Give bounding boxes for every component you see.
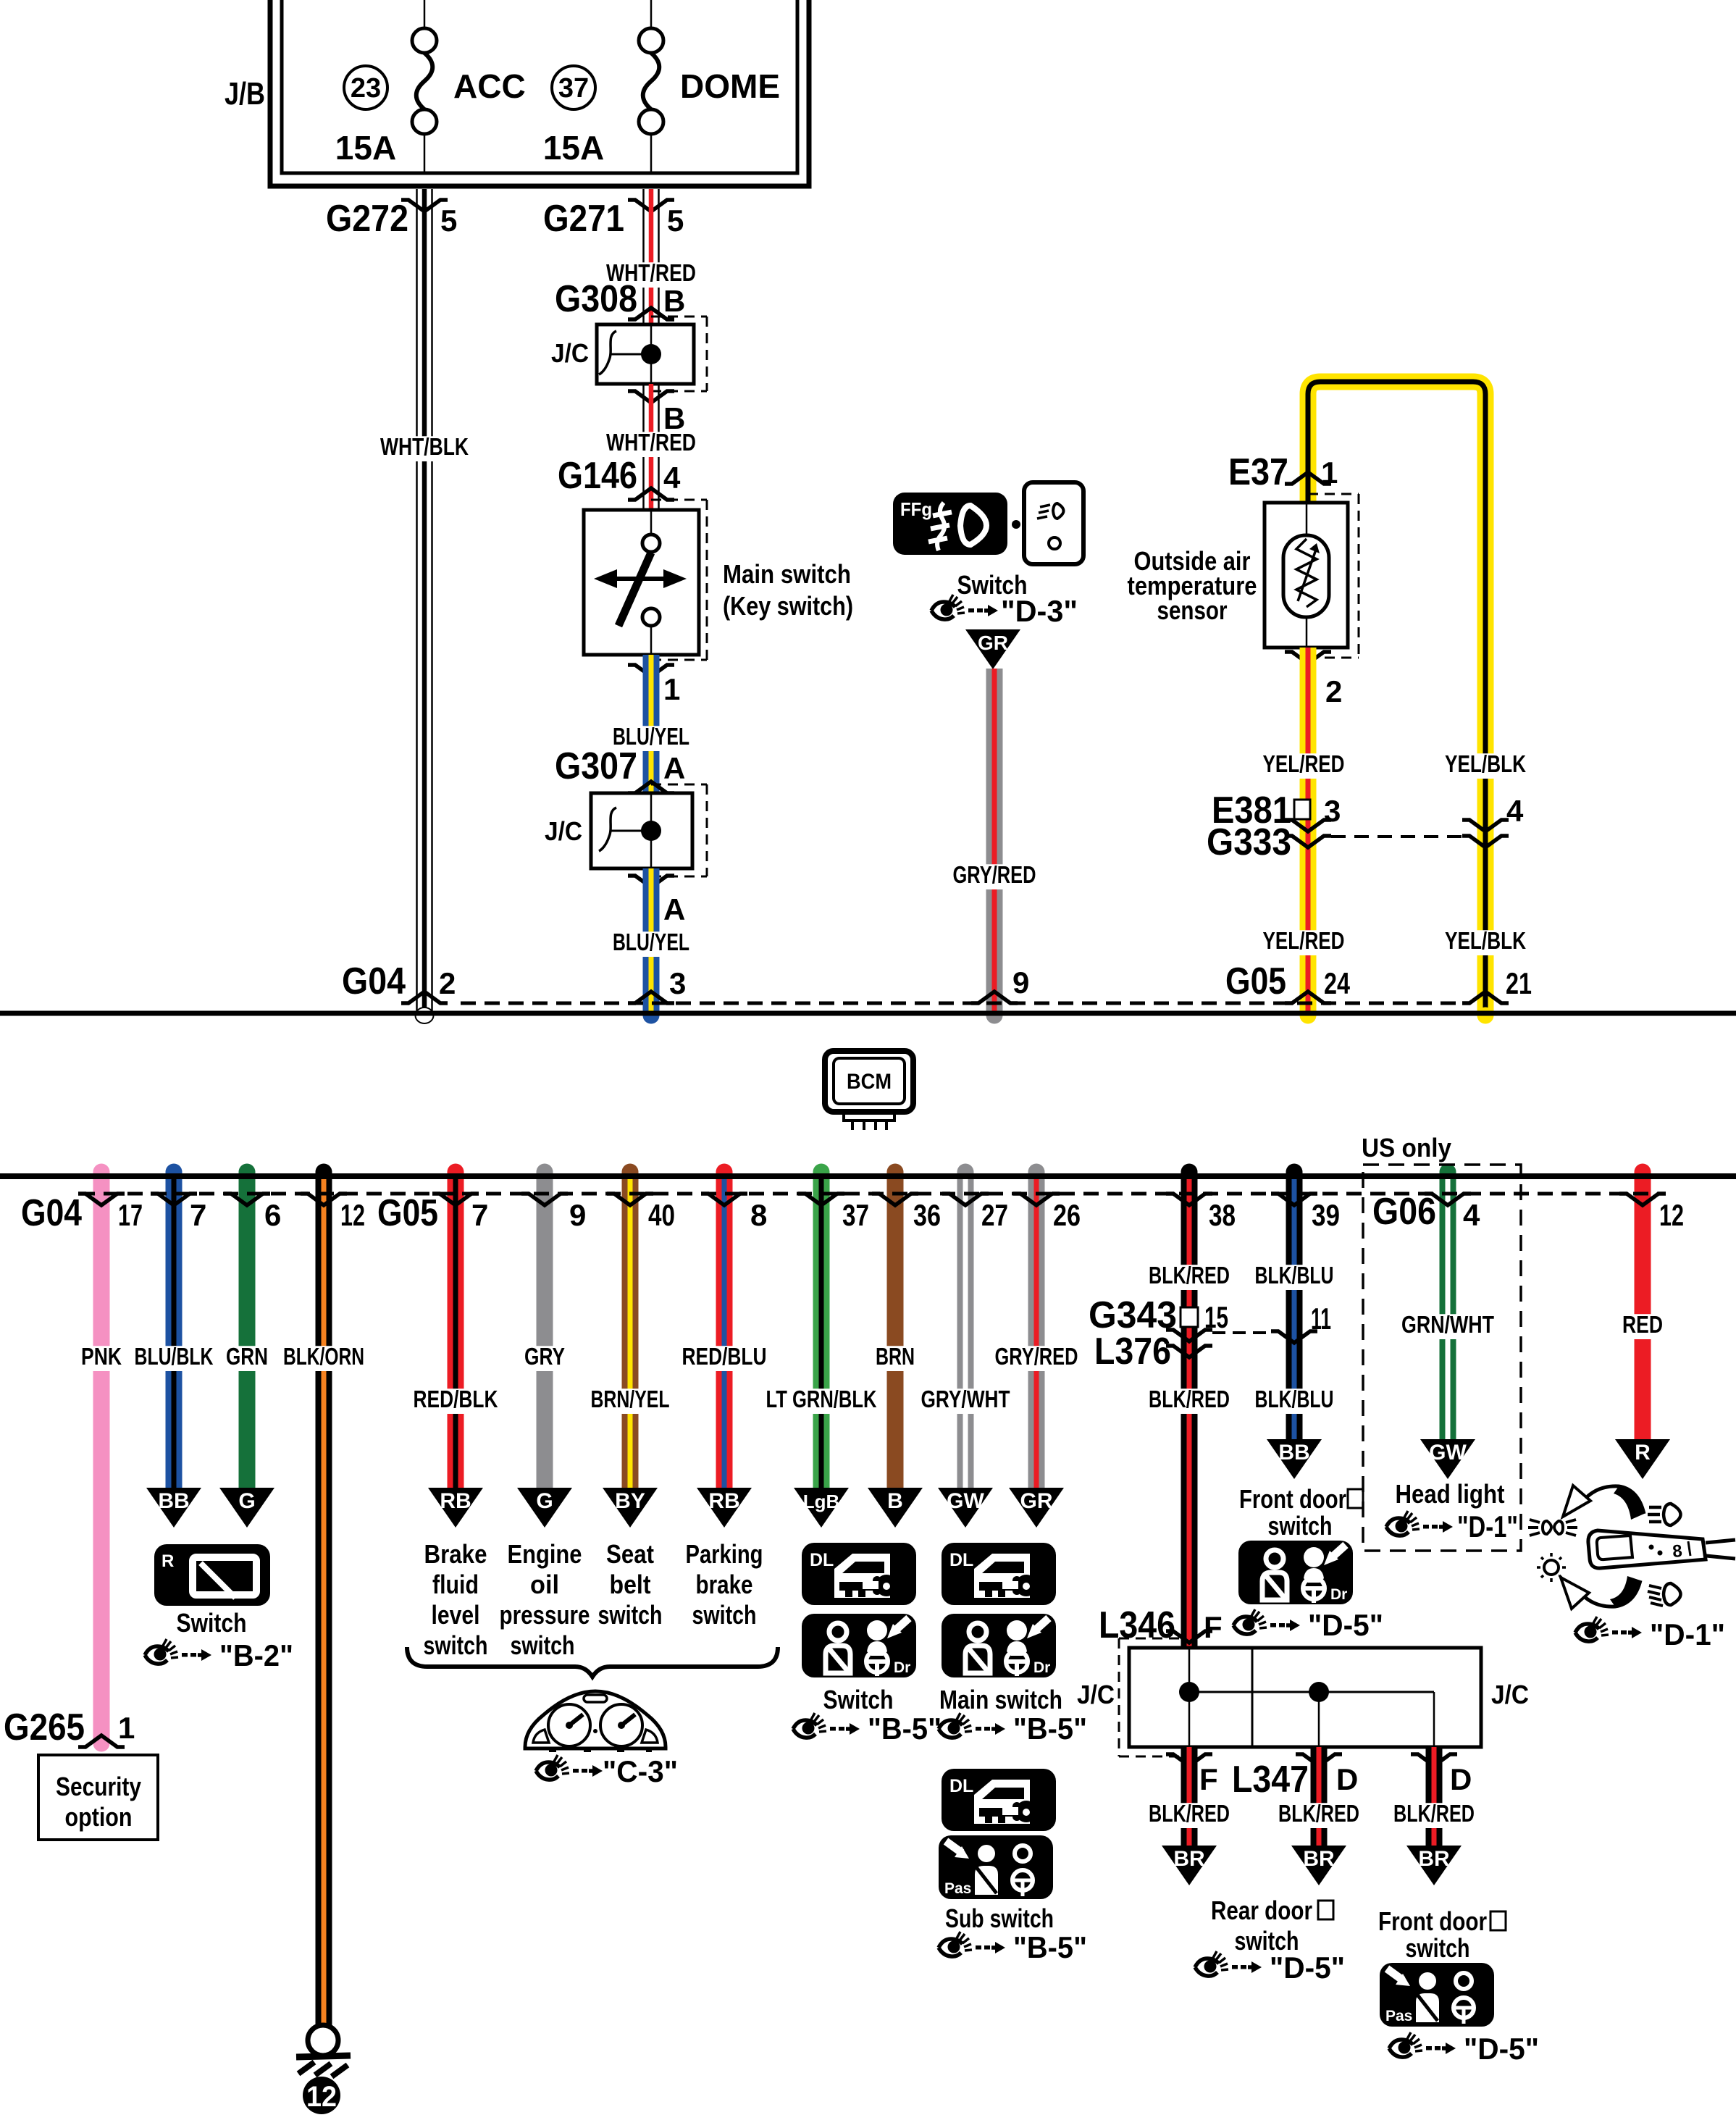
svg-text:GRY/RED: GRY/RED: [995, 1343, 1078, 1370]
svg-text:5: 5: [667, 204, 684, 238]
connector L346 pin F: [1099, 1604, 1223, 1646]
connector pin 2: [1285, 652, 1342, 708]
ground symbol 12: [296, 2025, 351, 2114]
eye C-3: [536, 1754, 678, 1788]
svg-text:37: 37: [558, 73, 589, 104]
svg-text:G272: G272: [326, 198, 408, 240]
svg-text:GW: GW: [947, 1489, 984, 1513]
wire GRN: [222, 1164, 272, 1488]
svg-text:21: 21: [1506, 966, 1532, 1000]
eye D-5 (front door Pas): [1389, 2032, 1539, 2066]
svg-text:2: 2: [439, 966, 456, 1000]
connector E381 pin 3 / G333: [1207, 789, 1524, 863]
main switch label + eye B-5 (2): [939, 1685, 1087, 1746]
bus2 pin chevrons and numbers: [78, 1194, 1684, 1232]
svg-text:DL: DL: [810, 1550, 834, 1570]
svg-text:Parking: Parking: [686, 1539, 763, 1569]
svg-text:G05: G05: [377, 1192, 438, 1234]
svg-text:BLU/BLK: BLU/BLK: [135, 1343, 214, 1370]
wire YEL/BLK loop: [1308, 382, 1494, 1024]
svg-text:9: 9: [1012, 965, 1029, 1000]
svg-text:F: F: [1199, 1762, 1218, 1796]
svg-text:15A: 15A: [543, 129, 604, 167]
svg-text:4: 4: [1506, 794, 1524, 828]
svg-text:12: 12: [306, 2081, 337, 2113]
wire BRN/YEL: [587, 1164, 674, 1488]
connector pin A lower: [628, 876, 685, 926]
svg-text:G: G: [238, 1489, 255, 1513]
svg-text:Dr: Dr: [1033, 1659, 1050, 1676]
svg-text:DOME: DOME: [680, 67, 780, 105]
svg-text:J/C: J/C: [545, 816, 582, 846]
connector G343 pin 15 / L376: [1089, 1294, 1331, 1373]
svg-text:RB: RB: [440, 1489, 471, 1513]
seat belt switch label: [598, 1539, 663, 1630]
svg-text:26: 26: [1053, 1198, 1081, 1232]
J/C box L346/L347: [1077, 1638, 1529, 1756]
svg-text:BLK/RED: BLK/RED: [1149, 1262, 1230, 1289]
svg-text:YEL/RED: YEL/RED: [1263, 927, 1345, 954]
main switch icon Dr: [942, 1614, 1056, 1677]
svg-text:27: 27: [981, 1198, 1008, 1232]
svg-text:Security: Security: [56, 1772, 141, 1801]
wire WHT/RED lower: [602, 384, 700, 510]
svg-text:switch: switch: [424, 1630, 488, 1660]
svg-text:GRY: GRY: [524, 1343, 565, 1370]
svg-text:GRN: GRN: [226, 1343, 268, 1370]
security option box: [38, 1755, 158, 1840]
svg-text:3: 3: [669, 966, 686, 1000]
svg-text:"C-3": "C-3": [603, 1754, 678, 1788]
triangle BR 2: [1291, 1846, 1346, 1885]
svg-text:BLK/BLU: BLK/BLU: [1255, 1262, 1334, 1289]
svg-text:L347: L347: [1232, 1759, 1309, 1801]
triangle GR: [965, 629, 1020, 669]
eye D-1 (head light): [1386, 1509, 1518, 1543]
wire BLU/YEL lower: [608, 868, 694, 1024]
svg-text:E37: E37: [1228, 451, 1288, 493]
front door switch icon Pas: [1380, 1963, 1494, 2027]
connector G265 pin 1: [4, 1706, 135, 1748]
svg-text:Front door: Front door: [1239, 1484, 1346, 1514]
svg-text:24: 24: [1324, 966, 1350, 1000]
svg-text:GR: GR: [978, 632, 1008, 654]
connector G272 pin 5: [326, 198, 457, 240]
svg-text:BB: BB: [1278, 1441, 1309, 1465]
svg-text:fluid: fluid: [432, 1570, 479, 1599]
svg-text:BR: BR: [1303, 1847, 1335, 1871]
wire GRN/WHT: [1397, 1164, 1498, 1440]
svg-text:8: 8: [750, 1198, 767, 1232]
wire GRY/WHT: [917, 1164, 1015, 1488]
svg-text:switch: switch: [692, 1600, 757, 1630]
svg-text:brake: brake: [696, 1570, 753, 1599]
triangle RB brake: [428, 1488, 483, 1528]
junction block J/B: [225, 0, 809, 186]
svg-text:G333: G333: [1207, 821, 1291, 863]
svg-text:Switch: Switch: [177, 1608, 247, 1638]
svg-text:Pas: Pas: [944, 1880, 971, 1897]
wire GRY/RED lower: [991, 1164, 1083, 1488]
triangle BB front door: [1267, 1439, 1322, 1479]
svg-text:Dr: Dr: [1330, 1586, 1347, 1603]
svg-text:BR: BR: [1418, 1847, 1450, 1871]
svg-text:LgB: LgB: [803, 1491, 840, 1512]
triangle BY: [603, 1488, 658, 1528]
connector G05 pins 24,21: [1225, 960, 1532, 1003]
svg-text:"D-5": "D-5": [1270, 1951, 1345, 1985]
svg-text:US only: US only: [1362, 1133, 1451, 1163]
sub switch label + eye B-5 (3): [939, 1903, 1087, 1964]
svg-text:D: D: [1336, 1762, 1358, 1796]
svg-text:GRN/WHT: GRN/WHT: [1401, 1311, 1494, 1338]
svg-text:Rear door: Rear door: [1211, 1895, 1312, 1925]
svg-text:12: 12: [340, 1198, 365, 1232]
J/C box G308: [551, 317, 707, 391]
front door switch label (Pas): [1378, 1906, 1506, 1963]
svg-text:12: 12: [1659, 1198, 1684, 1232]
svg-text:39: 39: [1312, 1198, 1340, 1232]
svg-text:DL: DL: [949, 1776, 973, 1796]
wire BLK/RED D1: [1274, 1747, 1364, 1846]
wire WHT/RED upper: [602, 189, 700, 324]
bus line G04/G05: [0, 1003, 1736, 1013]
svg-text:"B-5": "B-5": [1013, 1712, 1087, 1746]
outside air temperature sensor: [1128, 494, 1359, 658]
svg-text:Dr: Dr: [894, 1659, 910, 1676]
svg-text:2: 2: [1325, 674, 1342, 708]
svg-text:G271: G271: [543, 198, 624, 240]
svg-text:Pas: Pas: [1385, 2008, 1412, 2024]
main switch (key switch): [584, 500, 853, 660]
svg-text:GW: GW: [1429, 1441, 1467, 1465]
svg-text:option: option: [65, 1802, 133, 1832]
svg-text:G05: G05: [1225, 960, 1286, 1002]
svg-text:B: B: [663, 284, 685, 318]
svg-text:"B-5": "B-5": [868, 1712, 942, 1746]
svg-text:PNK: PNK: [81, 1343, 122, 1370]
connector G06 label: [1372, 1191, 1436, 1233]
svg-text:BLK/RED: BLK/RED: [1149, 1386, 1230, 1412]
svg-text:FFg: FFg: [900, 498, 932, 520]
wire LT GRN/BLK: [762, 1164, 881, 1488]
wire RED main: [1618, 1164, 1667, 1440]
svg-text:belt: belt: [610, 1570, 651, 1599]
BCM module: [825, 1051, 913, 1130]
junction connector G308 pin B: [555, 278, 685, 320]
instrument cluster icon: [525, 1691, 666, 1752]
svg-text:BLK/RED: BLK/RED: [1149, 1800, 1230, 1827]
svg-text:level: level: [432, 1600, 480, 1630]
svg-text:DL: DL: [949, 1550, 973, 1570]
svg-text:Seat: Seat: [606, 1539, 654, 1569]
triangle RB parking: [697, 1488, 752, 1528]
connector pin 9: [971, 965, 1029, 1003]
engine oil pressure switch label: [500, 1539, 590, 1660]
svg-text:Main switch: Main switch: [723, 559, 851, 589]
svg-text:D: D: [1450, 1762, 1472, 1796]
fog switch label + eye D-3: [931, 570, 1078, 628]
svg-text:A: A: [663, 892, 685, 926]
svg-text:3: 3: [1324, 794, 1341, 828]
triangle G oil: [517, 1488, 572, 1528]
svg-text:G: G: [536, 1489, 553, 1513]
svg-text:J/C: J/C: [1077, 1680, 1115, 1709]
svg-text:BY: BY: [615, 1489, 645, 1513]
svg-text:G04: G04: [21, 1192, 82, 1234]
svg-text:YEL/BLK: YEL/BLK: [1445, 927, 1526, 954]
wire YEL/RED: [1259, 648, 1349, 1024]
svg-text:36: 36: [913, 1198, 941, 1232]
svg-text:7: 7: [190, 1198, 206, 1232]
svg-text:Main switch: Main switch: [939, 1685, 1062, 1714]
svg-text:37: 37: [842, 1198, 869, 1232]
wire BLK/ORN: [279, 1164, 369, 2026]
svg-text:L346: L346: [1099, 1604, 1175, 1646]
wire PNK: [77, 1164, 126, 1752]
svg-text:Front door: Front door: [1378, 1906, 1487, 1936]
rear wiper switch icon: [154, 1544, 270, 1606]
switch label + eye B-5 (1): [793, 1685, 942, 1746]
wire BLK/BLU: [1251, 1164, 1338, 1440]
svg-text:BLU/YEL: BLU/YEL: [613, 929, 689, 955]
svg-text:G265: G265: [4, 1706, 85, 1748]
sub switch icon Pas: [939, 1835, 1053, 1899]
svg-text:G146: G146: [558, 455, 637, 497]
connector pin B lower: [628, 391, 685, 435]
svg-text:4: 4: [663, 461, 681, 495]
svg-text:1: 1: [663, 672, 680, 706]
wire RED/BLK: [409, 1164, 503, 1488]
wire GRY/RED fog: [949, 669, 1041, 1024]
svg-text:RB: RB: [708, 1489, 739, 1513]
svg-text:Switch: Switch: [823, 1685, 894, 1714]
svg-text:17: 17: [118, 1198, 143, 1232]
combination switch illustration: [1528, 1486, 1735, 1609]
svg-text:G06: G06: [1372, 1191, 1436, 1233]
svg-text:1: 1: [118, 1711, 135, 1745]
svg-text:"B-2": "B-2": [219, 1638, 293, 1672]
svg-text:"D-1": "D-1": [1457, 1509, 1518, 1543]
wire YEL/BLK labels: [1441, 750, 1530, 955]
triangle LgB: [794, 1488, 849, 1528]
front door switch label (Dr): [1239, 1484, 1363, 1541]
svg-text:switch: switch: [1406, 1933, 1470, 1963]
svg-text:RED/BLU: RED/BLU: [682, 1343, 767, 1370]
eye D-5 (rear door): [1195, 1951, 1345, 1985]
wire GRY: [520, 1164, 569, 1488]
triangle GW headlight: [1420, 1439, 1475, 1479]
fog lamp switch icon: [893, 482, 1083, 564]
svg-text:9: 9: [569, 1198, 586, 1232]
door switch icon Dr 1: [802, 1614, 916, 1677]
rear door switch label: [1211, 1895, 1333, 1956]
svg-text:BLK/RED: BLK/RED: [1278, 1800, 1359, 1827]
svg-text:G307: G307: [555, 745, 637, 787]
main switch icon DL: [942, 1543, 1056, 1605]
svg-text:Brake: Brake: [424, 1539, 487, 1569]
svg-text:WHT/RED: WHT/RED: [606, 429, 696, 456]
head light label: [1396, 1479, 1505, 1509]
svg-text:R: R: [162, 1551, 174, 1571]
connector L347 pins F,D,D: [1166, 1754, 1472, 1801]
svg-text:pressure: pressure: [500, 1600, 590, 1630]
triangle GR main: [1009, 1488, 1064, 1528]
eye D-1 (combination switch): [1575, 1617, 1725, 1651]
svg-text:BCM: BCM: [847, 1070, 892, 1094]
svg-text:BB: BB: [158, 1489, 189, 1513]
svg-text:5: 5: [440, 204, 457, 238]
svg-text:BLK/ORN: BLK/ORN: [283, 1343, 364, 1370]
wire BLU/YEL upper: [608, 655, 694, 793]
svg-text:Engine: Engine: [508, 1539, 582, 1569]
svg-text:BRN: BRN: [876, 1343, 915, 1370]
svg-text:G04: G04: [342, 960, 406, 1002]
connector E37 pin 1: [1228, 451, 1338, 493]
svg-text:ACC: ACC: [453, 67, 526, 105]
fuse 37 DOME 15A: [543, 0, 780, 173]
connector G146 pin 4: [558, 455, 681, 500]
J/C box G307: [545, 784, 707, 876]
connector G04 label: [21, 1192, 82, 1234]
sub switch icon DL: [942, 1769, 1056, 1831]
svg-text:BR: BR: [1173, 1847, 1205, 1871]
svg-text:"D-1": "D-1": [1650, 1617, 1725, 1651]
svg-text:BLK/RED: BLK/RED: [1393, 1800, 1475, 1827]
connector G05 label: [377, 1192, 438, 1234]
svg-text:YEL/RED: YEL/RED: [1263, 750, 1345, 777]
svg-text:11: 11: [1311, 1302, 1331, 1336]
svg-text:4: 4: [1463, 1198, 1480, 1232]
svg-text:YEL/BLK: YEL/BLK: [1445, 750, 1526, 777]
svg-text:L376: L376: [1094, 1331, 1171, 1373]
junction connector G307 pin A: [555, 745, 685, 793]
svg-text:"D-3": "D-3": [1001, 594, 1078, 628]
svg-text:switch: switch: [1268, 1511, 1333, 1541]
brace to instrument cluster: [407, 1647, 778, 1677]
svg-text:GRY/RED: GRY/RED: [953, 861, 1036, 888]
wire BLK/RED F: [1144, 1747, 1234, 1846]
svg-text:Sub switch: Sub switch: [945, 1903, 1054, 1933]
connector pin 1: [628, 665, 680, 706]
svg-text:sensor: sensor: [1157, 595, 1228, 625]
triangle R: [1615, 1439, 1670, 1479]
connector G271 pin 5: [543, 198, 684, 240]
svg-text:GRY/WHT: GRY/WHT: [921, 1386, 1010, 1412]
svg-text:GR: GR: [1020, 1489, 1053, 1513]
svg-text:RED/BLK: RED/BLK: [414, 1386, 498, 1412]
svg-text:J/C: J/C: [551, 338, 589, 368]
triangle G left: [219, 1488, 274, 1528]
svg-text:RED: RED: [1622, 1311, 1663, 1338]
eye D-5 (front door Dr): [1233, 1608, 1383, 1642]
US only box: [1362, 1133, 1521, 1551]
svg-text:40: 40: [648, 1198, 675, 1232]
svg-text:BRN/YEL: BRN/YEL: [591, 1386, 670, 1412]
svg-text:B: B: [887, 1489, 903, 1513]
svg-text:F: F: [1204, 1610, 1223, 1644]
svg-text:J/B: J/B: [225, 76, 265, 112]
connector G04 pins 2,3: [342, 960, 686, 1003]
svg-text:8: 8: [1672, 1541, 1683, 1562]
fuse 23 ACC 15A: [335, 0, 526, 173]
svg-text:"D-5": "D-5": [1308, 1608, 1383, 1642]
svg-text:"B-5": "B-5": [1013, 1930, 1087, 1964]
wire BLU/BLK: [130, 1164, 218, 1488]
wire BLK/RED D2: [1389, 1747, 1479, 1846]
svg-text:R: R: [1635, 1441, 1651, 1465]
svg-text:6: 6: [264, 1198, 281, 1232]
triangle B: [868, 1488, 923, 1528]
wire WHT/BLK: [376, 189, 473, 1023]
brake fluid level switch label: [424, 1539, 488, 1660]
svg-text:7: 7: [471, 1198, 488, 1232]
triangle BB left: [146, 1488, 201, 1528]
svg-text:switch: switch: [511, 1630, 575, 1660]
svg-text:23: 23: [351, 73, 381, 104]
bus line 2 (BCM connectors): [0, 1176, 1736, 1194]
wire BRN: [871, 1164, 919, 1488]
parking brake switch label: [686, 1539, 763, 1630]
svg-text:switch: switch: [598, 1600, 663, 1630]
svg-text:A: A: [663, 751, 685, 785]
triangle BR 1: [1162, 1846, 1217, 1885]
svg-text:oil: oil: [530, 1570, 559, 1599]
front door switch icon Dr: [1238, 1541, 1353, 1604]
wiper switch label + eye B-2: [145, 1608, 293, 1672]
triangle BR 3: [1406, 1846, 1462, 1885]
svg-text:LT GRN/BLK: LT GRN/BLK: [766, 1386, 877, 1412]
wire BLK/RED main: [1144, 1164, 1234, 1649]
wire RED/BLU: [678, 1164, 771, 1488]
door switch icon DL 1: [802, 1543, 916, 1605]
svg-text:BLK/BLU: BLK/BLU: [1255, 1386, 1334, 1412]
triangle GW main: [938, 1488, 993, 1528]
svg-text:Head light: Head light: [1396, 1479, 1505, 1509]
svg-text:38: 38: [1209, 1198, 1236, 1232]
svg-text:15A: 15A: [335, 129, 396, 167]
svg-text:J/C: J/C: [1491, 1680, 1529, 1709]
svg-text:(Key switch): (Key switch): [723, 591, 853, 621]
svg-text:"D-5": "D-5": [1464, 2032, 1539, 2066]
svg-text:WHT/BLK: WHT/BLK: [380, 433, 469, 460]
svg-text:G308: G308: [555, 278, 637, 320]
